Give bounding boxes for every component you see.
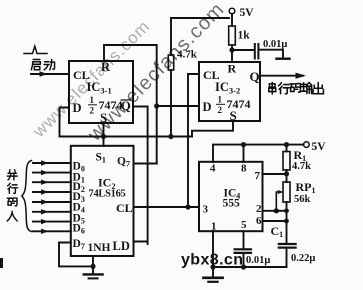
box IC4 555	[199, 162, 263, 231]
wire pin6 to C1	[286, 221, 288, 243]
svg-text:8: 8	[241, 163, 247, 175]
wire cap bottom	[243, 253, 245, 267]
value labels	[177, 7, 326, 266]
label qi (start)	[31, 60, 40, 70]
wire 4.7k bottom to bus	[170, 70, 172, 137]
svg-text:555: 555	[223, 198, 241, 210]
label serial-out ma	[290, 84, 301, 93]
node clock line	[185, 204, 190, 209]
wire D stub of IC3-1 to bus	[60, 108, 70, 137]
5V terminal left	[229, 8, 235, 14]
svg-text:5: 5	[241, 219, 247, 231]
svg-text:4.7k: 4.7k	[177, 49, 198, 61]
svg-text:5V: 5V	[240, 7, 255, 19]
svg-text:74LS165: 74LS165	[89, 189, 126, 200]
svg-text:6: 6	[256, 215, 262, 227]
svg-text:2: 2	[90, 106, 95, 116]
svg-text:5V: 5V	[312, 141, 327, 153]
svg-text:LD: LD	[113, 239, 130, 253]
labels IC4 555	[203, 163, 263, 233]
svg-text:2: 2	[218, 105, 223, 115]
wire Q7 stub of IC2	[134, 163, 157, 165]
capacitor C1 plates	[279, 244, 296, 248]
wire D line to IC3-2	[157, 105, 199, 107]
svg-text:0.01μ: 0.01μ	[246, 255, 270, 266]
resistor 1k	[229, 26, 236, 45]
label serial-out shu	[301, 83, 312, 94]
svg-text:Q: Q	[250, 69, 260, 84]
wiper arrow RP1	[276, 192, 281, 211]
svg-text:4: 4	[210, 163, 216, 175]
node 1k/R	[229, 47, 234, 52]
svg-text:S: S	[100, 110, 107, 125]
arrowhead CL input	[40, 71, 48, 77]
svg-text:S: S	[230, 108, 237, 123]
label dong (start)	[44, 60, 55, 70]
wire pin2	[263, 210, 287, 212]
wire Q-bar of IC3-1 down to LD	[133, 107, 148, 245]
svg-text:4.7k: 4.7k	[292, 161, 311, 172]
wire 5V rail left	[171, 17, 229, 19]
capacitor 0.01u bottom plates	[235, 249, 251, 253]
wire 5V rail right / 555 pin4	[213, 145, 304, 162]
wire 4.7k top	[170, 18, 172, 55]
wire to capacitor 0.01u top	[232, 49, 254, 51]
node pin1 ground	[210, 264, 215, 269]
5V terminal right	[304, 142, 310, 148]
labels IC2	[73, 152, 133, 255]
node S bus	[101, 134, 106, 139]
curly brace parallel input	[22, 161, 32, 232]
start pulse symbol	[24, 46, 47, 53]
node pin7	[284, 171, 289, 176]
ground bars at INH	[84, 273, 103, 275]
wire CL of IC3-2 down to clock line	[188, 74, 199, 207]
wire R1 bottom / pin7	[263, 170, 287, 182]
wire R of IC3-1 up and over to node	[104, 45, 157, 164]
wire pull-up bus	[60, 136, 193, 138]
input arrows D0-D7	[33, 160, 71, 234]
potentiometer RP1	[283, 182, 290, 202]
svg-text:7: 7	[255, 170, 261, 182]
resistor R1	[283, 152, 290, 171]
watermark www.elecfans.com	[29, 0, 229, 146]
wire pin6	[263, 220, 287, 222]
wire pin8	[243, 145, 245, 162]
labels IC3-2	[203, 62, 260, 124]
svg-text:1k: 1k	[238, 30, 251, 42]
node pin8 rail	[241, 142, 246, 147]
label parallel hang	[8, 183, 18, 193]
wire 5V to 1k	[231, 14, 233, 26]
svg-text:Q: Q	[121, 99, 131, 113]
ground bars pin1	[203, 276, 222, 279]
svg-text:3: 3	[203, 204, 209, 216]
node pin2 right	[284, 208, 289, 213]
wire pin5 to cap	[243, 231, 245, 249]
label serial-out xing	[279, 83, 290, 94]
svg-text:1: 1	[90, 95, 95, 105]
svg-text:0.22μ: 0.22μ	[291, 253, 315, 264]
capacitor 0.01u top plates	[255, 44, 259, 59]
box IC3-1 7474	[69, 61, 133, 123]
node wiper/pin2	[274, 208, 279, 213]
svg-text:D: D	[73, 101, 82, 115]
svg-text:2: 2	[256, 203, 262, 215]
node pin6	[284, 219, 289, 224]
svg-text:0.01μ: 0.01μ	[263, 39, 287, 50]
label parallel bing	[7, 170, 17, 180]
wire cap to ground bar	[259, 50, 283, 58]
wire clock line 555 pin3 to CL of IC2	[134, 206, 200, 208]
svg-text:ybx8.cn: ybx8.cn	[181, 252, 243, 269]
box IC2 74LS165	[71, 146, 134, 256]
node 4.7k bus	[168, 134, 173, 139]
edge mark bottom left	[0, 258, 3, 268]
svg-text:56k: 56k	[294, 194, 311, 205]
label serial-out chuan	[269, 83, 276, 95]
wire pin1 down	[212, 231, 214, 277]
wire Q output arrow	[260, 75, 303, 77]
wire S of IC3-2 to bus	[192, 121, 233, 137]
svg-text:D: D	[203, 100, 212, 114]
labels IC3-1	[73, 60, 132, 125]
box IC3-2 7474	[199, 62, 260, 121]
wire R1 top	[286, 145, 288, 152]
node 0.01u ground	[241, 264, 246, 269]
wire S of IC3-1 to S1 of IC2	[103, 123, 105, 146]
node R1 rail	[284, 142, 289, 147]
wire D7 tie to INH	[59, 243, 93, 274]
ground bar top right	[277, 58, 290, 60]
wire C1 bottom to ground line	[213, 248, 287, 267]
label parallel ma	[7, 198, 17, 206]
wire 1k to R of IC3-2	[231, 45, 233, 62]
svg-text:1: 1	[211, 221, 217, 233]
node INH ground	[90, 264, 95, 269]
wire RP1 bottom	[286, 202, 288, 221]
label parallel ru	[7, 211, 17, 221]
svg-text:1: 1	[218, 95, 223, 105]
svg-text:R: R	[101, 60, 111, 74]
svg-text:CL: CL	[116, 201, 133, 215]
node junction R/D line	[154, 103, 159, 108]
label serial-out chu	[313, 83, 323, 94]
resistor 4.7k	[168, 55, 173, 70]
svg-text:1NH: 1NH	[88, 242, 111, 254]
wire CL input of IC3-1	[31, 73, 69, 75]
svg-text:R: R	[228, 62, 237, 76]
CJK glyphs drawn as strokes	[7, 60, 323, 222]
